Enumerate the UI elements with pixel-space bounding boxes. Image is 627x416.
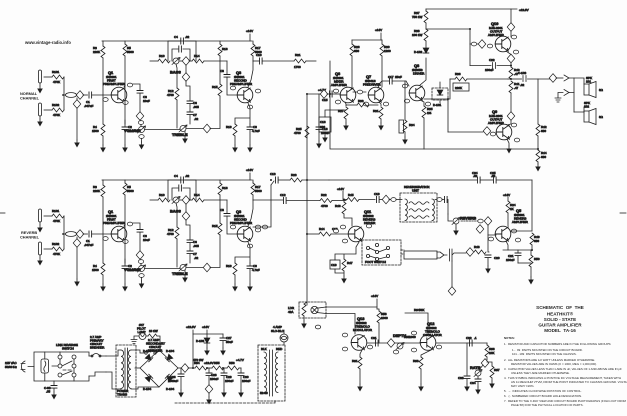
- svg-text:BLK: BLK: [261, 347, 267, 351]
- svg-text:LAMP: LAMP: [138, 330, 146, 334]
- wire Q6 collector to Q7 base: [351, 88, 366, 92]
- svg-text:PAGE 58) FOR THE PHYSICAL LOCA: PAGE 58) FOR THE PHYSICAL LOCATION OF PA…: [511, 403, 584, 407]
- svg-text:C19: C19: [331, 263, 337, 267]
- emitter resistor R41: [509, 81, 513, 93]
- tank springs: [409, 202, 429, 219]
- resistor R42: [536, 124, 540, 136]
- long coupling wire: [329, 179, 477, 181]
- wire Q4 collector output: [253, 199, 283, 201]
- diode D-104a: [145, 354, 152, 361]
- base resistor R44: [307, 233, 319, 235]
- fuse F3 speaker line: [280, 334, 288, 342]
- diamond rate: [481, 359, 489, 368]
- svg-text:DRIVER: DRIVER: [364, 221, 376, 225]
- svg-text:SWITCH: SWITCH: [62, 347, 74, 351]
- svg-text:CHANNEL: CHANNEL: [20, 96, 40, 101]
- diode D-104d: [165, 374, 172, 381]
- svg-text:R23: R23: [291, 173, 297, 177]
- Q4 collector pads: [255, 225, 260, 229]
- svg-text:2000uF: 2000uF: [168, 379, 178, 383]
- resistor R38: [424, 29, 428, 41]
- svg-text:25uF: 25uF: [395, 75, 402, 79]
- svg-text:1%: 1%: [427, 111, 432, 115]
- svg-text:D-104: D-104: [143, 387, 152, 391]
- svg-text:5. → INDICATES CLOCKWISE ROT: 5. → INDICATES CLOCKWISE ROTATION OF CON…: [504, 389, 582, 393]
- svg-text:52-89: 52-89: [260, 391, 268, 395]
- svg-text:680: 680: [541, 129, 546, 133]
- emitter wire Q10: [506, 51, 511, 55]
- svg-text:100uF: 100uF: [506, 258, 515, 262]
- resistor R46: [343, 200, 346, 203]
- svg-text:+13.0V: +13.0V: [204, 361, 214, 365]
- T2 core: [270, 350, 273, 396]
- capacitor C25: [494, 177, 497, 183]
- +14V tick Q5: [507, 197, 509, 201]
- transistor Q6: [340, 87, 356, 103]
- capacitor C29: [223, 368, 225, 373]
- bias divider wire: [537, 79, 539, 124]
- ground C20: [485, 266, 491, 274]
- svg-text:680: 680: [354, 49, 359, 53]
- resistor R45: [346, 199, 347, 201]
- svg-text:D-101: D-101: [433, 103, 442, 107]
- pads Q12: [411, 331, 416, 335]
- long bus to tremolo modulator: [306, 94, 308, 302]
- svg-text:AMPLIFIER: AMPLIFIER: [488, 33, 505, 37]
- feedback tap wire: [424, 79, 450, 132]
- capacitor C10: [260, 58, 263, 64]
- ground D-103: [204, 348, 210, 356]
- feedback bus wire: [330, 94, 538, 149]
- ground C-98: [51, 392, 57, 400]
- svg-text:DRIVER: DRIVER: [413, 72, 425, 76]
- wire plug to diamond: [450, 249, 467, 261]
- svg-text:C12: C12: [280, 193, 286, 197]
- svg-text:1. RESISTOR AND CAPACITOR NUM: 1. RESISTOR AND CAPACITOR NUMBERS ARE IN…: [504, 342, 611, 346]
- collector wire Q10: [510, 9, 512, 37]
- svg-text:1700: 1700: [294, 65, 301, 69]
- pads Q6: [333, 89, 338, 93]
- svg-text:MAY VARY ±20%.: MAY VARY ±20%.: [511, 384, 535, 388]
- capacitor C27: [222, 334, 224, 338]
- base pads: [333, 229, 338, 233]
- svg-text:4700: 4700: [294, 131, 301, 135]
- svg-text:102: 102: [584, 105, 589, 109]
- svg-text:50uF: 50uF: [226, 340, 233, 344]
- core: [125, 348, 128, 391]
- output wire: [178, 367, 182, 369]
- svg-text:FOOT SWITCH: FOOT SWITCH: [365, 260, 386, 264]
- edge fold mark right: [620, 212, 626, 214]
- svg-text:C31: C31: [371, 336, 377, 340]
- svg-text:+14V: +14V: [337, 187, 344, 191]
- pads Q11: [340, 225, 345, 229]
- primary winding: [121, 350, 124, 388]
- svg-text:TRANS: TRANS: [117, 393, 127, 397]
- transistor Q8: [409, 85, 425, 101]
- svg-text:470 2W: 470 2W: [193, 358, 204, 362]
- bridge rectifier: [140, 350, 178, 387]
- pads Q9: [490, 132, 495, 136]
- resistor R50: [529, 255, 533, 267]
- svg-text:+13.8V: +13.8V: [519, 8, 529, 12]
- ground C30: [238, 390, 244, 398]
- svg-text:+4.7V: +4.7V: [236, 358, 244, 362]
- capacitor C34: [477, 376, 479, 379]
- svg-text:UNLESS THEY ARE MARKED OTHERWI: UNLESS THEY ARE MARKED OTHERWISE.: [511, 371, 570, 375]
- power transformer T1 box: [116, 345, 136, 397]
- output node wire: [508, 78, 522, 80]
- ground C29: [221, 390, 227, 398]
- resistor R55: [212, 366, 224, 370]
- collector wire Q12: [405, 313, 428, 334]
- primary wiring loop: [34, 352, 89, 381]
- resistor R37: [425, 23, 427, 29]
- capacitor C-103: [523, 76, 550, 82]
- svg-text:D-104: D-104: [166, 387, 175, 391]
- diamond depth: [387, 339, 395, 348]
- capacitor C-98: [53, 381, 55, 385]
- ground C26: [178, 390, 184, 398]
- svg-text:D-103: D-103: [196, 339, 205, 343]
- resistor R23: [290, 178, 302, 182]
- resistor R30: [381, 40, 383, 44]
- feedback resistor R36: [450, 78, 455, 80]
- tank input coil: [405, 199, 407, 221]
- svg-text:R45: R45: [348, 193, 354, 197]
- ground R50: [528, 277, 534, 285]
- svg-text:100 1W: 100 1W: [412, 33, 423, 37]
- ground Q7 emitter: [378, 123, 384, 131]
- wire mixer input: [307, 93, 332, 95]
- emitter ground Q9: [507, 139, 509, 146]
- emitter resistor R27: [344, 107, 348, 119]
- capacitor C32: [470, 340, 473, 346]
- resistor R61: [358, 357, 362, 369]
- bias network box C16: [319, 117, 331, 132]
- emitter wire Q5: [506, 241, 508, 250]
- svg-text:C22: C22: [489, 58, 495, 62]
- svg-text:D-104: D-104: [166, 349, 175, 353]
- pads tank out: [437, 198, 442, 202]
- pads Q5: [488, 237, 493, 241]
- svg-text:HEATHKIT®: HEATHKIT®: [547, 311, 574, 317]
- ground LDR: [301, 321, 307, 329]
- pads Q7: [363, 102, 368, 106]
- wire feedback upper: [426, 29, 470, 66]
- svg-text:101 - 199 PARTS MOUNTED ON TH: 101 - 199 PARTS MOUNTED ON THE CHASSIS.: [512, 352, 577, 356]
- transistor Q7: [368, 87, 384, 103]
- diamond base Q5: [476, 225, 484, 234]
- transistor Q9: [496, 124, 512, 140]
- hot wire down: [573, 78, 575, 112]
- svg-text:R63: R63: [413, 359, 419, 363]
- ground R67: [489, 381, 495, 389]
- pad reverb wiper: [478, 219, 483, 223]
- svg-text:SCHEMATIC OF THE: SCHEMATIC OF THE: [536, 305, 584, 310]
- svg-text:R22: R22: [321, 193, 327, 197]
- svg-text:1000: 1000: [381, 316, 388, 320]
- resistor R63: [419, 357, 423, 369]
- svg-text:100uF: 100uF: [242, 379, 251, 383]
- svg-text:C32: C32: [466, 336, 472, 340]
- ground Q13: [357, 384, 363, 392]
- transistor Q12: [420, 335, 436, 351]
- speaker SP-101: [584, 84, 589, 95]
- wire down to mixer: [329, 61, 331, 94]
- wire Q3 collector output: [253, 60, 259, 62]
- svg-text:1200: 1200: [384, 49, 391, 53]
- +13.8V tick: [192, 330, 194, 334]
- collector wire Q11: [344, 214, 352, 226]
- AC plug: [21, 361, 34, 372]
- lamp wire lower to Q13: [317, 313, 355, 335]
- top supply rail +13.8V: [426, 8, 517, 10]
- diamond below C28: [205, 385, 213, 394]
- capacitor C26: [183, 368, 185, 372]
- pads Q13: [342, 333, 347, 337]
- svg-text:C19: C19: [374, 192, 380, 196]
- ground C16A: [316, 141, 322, 149]
- ground C34: [475, 387, 481, 395]
- svg-text:R46: R46: [335, 204, 341, 208]
- resistor R26: [351, 40, 353, 44]
- emitter Q8 network: [420, 100, 424, 106]
- capacitor C28: [208, 368, 210, 373]
- capacitor C19: [377, 197, 380, 203]
- svg-text:+13.8V: +13.8V: [186, 325, 196, 329]
- ground R44: [535, 164, 541, 172]
- foot switch box: [362, 240, 401, 265]
- cable dashes: [401, 250, 404, 254]
- svg-text:C33: C33: [458, 376, 464, 380]
- pads Q8: [402, 84, 407, 88]
- diamond foot line: [466, 248, 474, 257]
- plug chevron jack 2: [564, 90, 569, 96]
- pad depth: [393, 350, 398, 354]
- diode D-104b: [165, 354, 172, 361]
- svg-text:R48: R48: [474, 245, 480, 249]
- diamond tank drive: [382, 195, 390, 204]
- transistor Q10: [495, 36, 511, 52]
- capacitor C13: [271, 181, 274, 185]
- +14V tick reverb driver: [342, 191, 344, 199]
- ground R34: [402, 137, 408, 145]
- resistor R24: [506, 201, 510, 213]
- switch contacts: [366, 246, 369, 249]
- reverb tank box: [400, 193, 437, 222]
- pads link: [357, 90, 362, 94]
- svg-text:MODEL TA-16: MODEL TA-16: [544, 328, 576, 333]
- dashed interconnect: [175, 400, 275, 403]
- svg-text:100uF: 100uF: [225, 379, 234, 383]
- svg-text:.1: .1: [474, 336, 477, 340]
- diamond foot jack: [448, 287, 456, 296]
- capacitor C23: [442, 199, 444, 201]
- svg-text:+14V: +14V: [375, 28, 382, 32]
- bias feed wire: [470, 65, 491, 67]
- pads Q10: [487, 44, 492, 48]
- svg-text:C10: C10: [256, 53, 262, 57]
- svg-text:C20: C20: [494, 256, 500, 260]
- svg-text:R56: R56: [229, 361, 235, 365]
- svg-text:CHANNEL: CHANNEL: [20, 235, 40, 240]
- svg-text:101: 101: [586, 80, 591, 84]
- svg-text:220K: 220K: [455, 86, 462, 90]
- ground C27: [220, 348, 226, 356]
- +14V tick tremolo: [376, 299, 378, 309]
- junction wire: [503, 249, 532, 251]
- svg-text:R31: R31: [373, 109, 379, 113]
- base wire Q9: [448, 131, 483, 133]
- resistor R21 1700: [294, 59, 306, 63]
- svg-text:680: 680: [534, 239, 539, 243]
- svg-text:C-103: C-103: [518, 71, 527, 75]
- emitter Q6: [345, 102, 346, 106]
- ground C33: [464, 384, 470, 392]
- resistor R56: [227, 366, 239, 370]
- resistor R66: [486, 343, 488, 345]
- svg-text:D-102: D-102: [414, 50, 423, 54]
- output transformer T2 box: [258, 345, 285, 401]
- zener diode D-103: [206, 334, 208, 338]
- svg-text:R36: R36: [455, 72, 461, 76]
- svg-text:UNIT: UNIT: [412, 189, 419, 193]
- svg-text:AMPLIFIER: AMPLIFIER: [331, 83, 348, 87]
- diamond supply: [181, 364, 189, 373]
- svg-text:1K: 1K: [510, 207, 514, 211]
- svg-text:AMPLIFIER: AMPLIFIER: [488, 121, 505, 125]
- capacitor C19A: [330, 260, 340, 269]
- svg-text:56K: 56K: [419, 308, 424, 312]
- LDR box: [299, 302, 326, 318]
- ground C28: [206, 397, 212, 405]
- emitter Q12: [421, 350, 431, 357]
- capacitor C24: [478, 177, 481, 183]
- pilot lamp PL-102: [139, 333, 146, 340]
- resistor R48: [474, 250, 486, 254]
- tank output coil: [432, 199, 434, 221]
- phone plug: [404, 251, 437, 259]
- svg-text:.05: .05: [46, 390, 51, 394]
- wiper dashes: [461, 220, 478, 222]
- collector chain Q8: [420, 58, 426, 85]
- feedback resistor R33: [346, 104, 357, 106]
- resistor R58: [377, 309, 379, 311]
- T2 secondary: [275, 352, 278, 393]
- ground reverb pot: [455, 224, 457, 228]
- capacitor C16A column: [318, 94, 320, 126]
- diode D-102: [423, 48, 429, 53]
- svg-text:SLO-BLO: SLO-BLO: [271, 329, 285, 333]
- wire to speaker 1: [569, 78, 584, 84]
- diamond above Q10: [507, 23, 515, 32]
- resistor R44: [536, 150, 540, 162]
- switch contacts: [58, 355, 62, 359]
- resistor R-10 1W: [146, 335, 148, 337]
- emitter resistor R31: [379, 107, 383, 119]
- thermal diode box D-101: [432, 88, 448, 100]
- speaker SP-102: [584, 111, 589, 122]
- svg-text:www.vintage-radio.info: www.vintage-radio.info: [24, 40, 71, 45]
- secondary wires: [131, 350, 159, 389]
- capacitor C30: [240, 368, 242, 373]
- T2 primary: [264, 352, 267, 393]
- LDR resistor: [304, 302, 307, 304]
- wire to speaker 2: [574, 107, 584, 112]
- secondary winding: [128, 350, 131, 388]
- svg-text:+14V: +14V: [202, 325, 209, 329]
- svg-text:.05: .05: [491, 174, 496, 178]
- base wire Q10: [470, 43, 478, 45]
- svg-text:GUITAR AMPLIFIER: GUITAR AMPLIFIER: [538, 323, 582, 328]
- capacitor C21: [517, 250, 519, 253]
- svg-text:680: 680: [541, 155, 546, 159]
- emitter network Q11: [335, 242, 359, 260]
- lamp PL-1: [311, 306, 318, 313]
- ground Q6 emitter: [343, 123, 349, 131]
- output diamond: [549, 74, 557, 83]
- pad tank in: [391, 198, 396, 202]
- svg-text:.02: .02: [520, 83, 525, 87]
- svg-text:100: 100: [320, 125, 325, 129]
- rail junction wire: [193, 334, 223, 368]
- switch wiring: [60, 352, 74, 381]
- svg-text:R61: R61: [352, 359, 358, 363]
- diamond base Q9: [483, 127, 491, 136]
- capacitor C31: [376, 340, 379, 346]
- normal channel strip: [37, 29, 262, 153]
- jack 2 wires: [558, 93, 574, 99]
- diamond above Q9: [507, 112, 515, 121]
- svg-text:R44: R44: [319, 227, 325, 231]
- reverb control R47: [448, 214, 452, 221]
- wire into Q5 base: [488, 225, 496, 235]
- diamond base Q10: [478, 40, 486, 49]
- capacitor C22: [493, 63, 512, 69]
- svg-text:1000: 1000: [409, 335, 416, 339]
- supply wire: [352, 39, 382, 41]
- svg-text:D-104: D-104: [143, 349, 152, 353]
- ground C16: [322, 135, 328, 143]
- svg-text:10K: 10K: [489, 351, 494, 355]
- svg-text:R33: R33: [358, 99, 364, 103]
- svg-text:C13: C13: [270, 172, 276, 176]
- svg-text:6. ◇ NUMBERED CIRCUIT BOARD: 6. ◇ NUMBERED CIRCUIT BOARD HOLE DESIGNA…: [504, 394, 582, 398]
- transistor Q5: [495, 226, 511, 242]
- diamond reverb wiper: [484, 217, 492, 226]
- capacitor C20: [490, 252, 492, 254]
- chassis ground jack 2: [555, 98, 561, 102]
- svg-text:R21: R21: [295, 53, 301, 57]
- edge fold mark left: [0, 212, 5, 214]
- svg-text:RED: RED: [276, 347, 283, 351]
- chassis ground pilot lamp: [131, 336, 139, 344]
- svg-text:+14V: +14V: [371, 294, 378, 298]
- primary wires: [106, 350, 121, 389]
- lamp and LDR wire from reverb channel: [306, 302, 308, 305]
- resistor R49: [530, 233, 534, 245]
- emitter Q7: [379, 102, 381, 106]
- bridge center tap: [135, 367, 140, 369]
- resistor R47A: [342, 259, 346, 271]
- svg-text:750 1W: 750 1W: [412, 15, 423, 19]
- base network wire: [488, 235, 489, 252]
- collector wire Q5: [511, 230, 532, 232]
- svg-text:10 1W: 10 1W: [149, 329, 158, 333]
- resistor R35: [422, 106, 426, 118]
- transistor Q11: [348, 226, 364, 242]
